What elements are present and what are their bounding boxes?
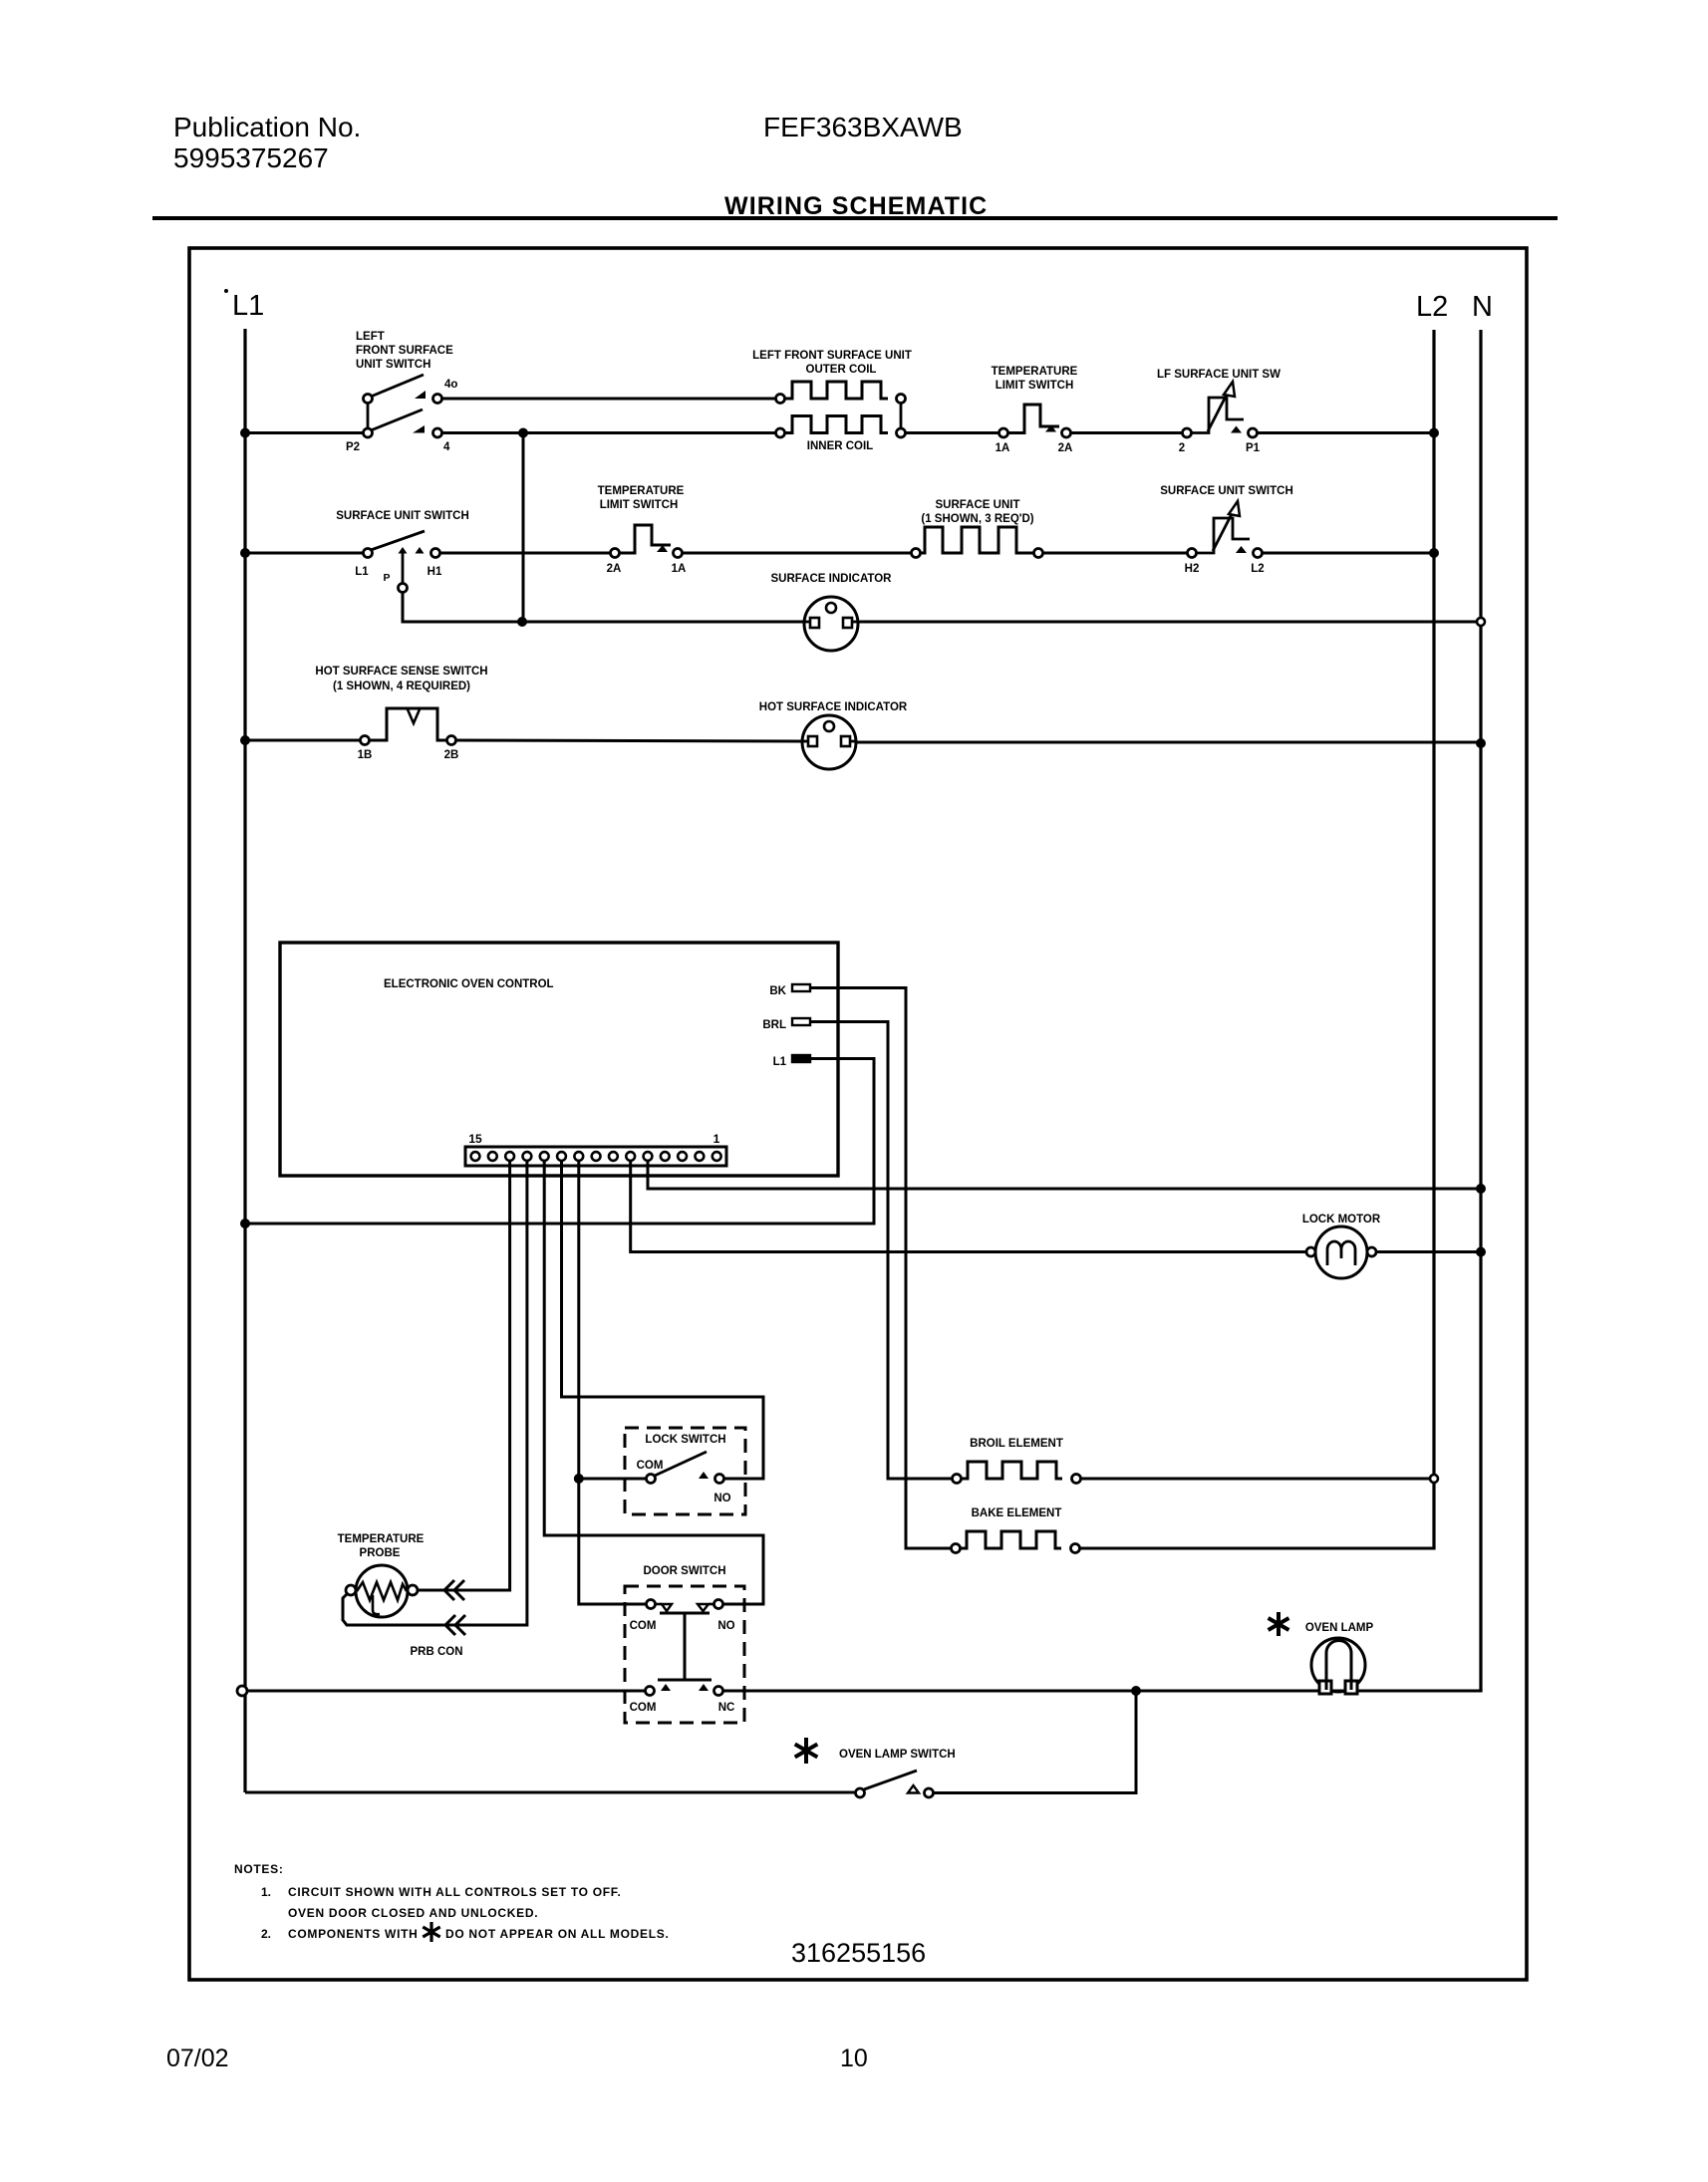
svg-text:SURFACE UNIT SWITCH: SURFACE UNIT SWITCH <box>1160 485 1293 497</box>
surface indicator lamp <box>804 597 858 651</box>
temperature limit switch (row 2) label <box>992 366 1078 392</box>
wire pin 12 to temperature probe (lower loop) <box>343 1160 527 1625</box>
wire pin 13 to temperature probe (upper) <box>418 1160 510 1590</box>
svg-text:LF SURFACE UNIT SW: LF SURFACE UNIT SW <box>1157 369 1281 381</box>
door switch lower pole COM NC <box>630 1684 735 1714</box>
wire linking outer and inner coil right ends <box>900 403 903 428</box>
wire L1 bus to hot surface sense switch <box>240 735 360 745</box>
svg-text:H2: H2 <box>1185 563 1200 575</box>
wire N bus (right vertical) <box>1479 330 1482 1691</box>
svg-text:PRB CON: PRB CON <box>410 1646 462 1658</box>
svg-text:2B: 2B <box>444 749 459 761</box>
svg-text:L1: L1 <box>773 1056 787 1068</box>
surface unit coil <box>912 527 1043 558</box>
svg-text:COM: COM <box>637 1460 664 1472</box>
svg-text:P2: P2 <box>346 441 360 453</box>
svg-text:LEFT: LEFT <box>356 331 385 343</box>
junction node at (525,434) <box>518 428 528 438</box>
oven lamp <box>1311 1638 1365 1694</box>
svg-text:NC: NC <box>718 1702 735 1714</box>
svg-text:TEMPERATURE: TEMPERATURE <box>338 1533 425 1545</box>
surface unit switch (left, with P tap) <box>355 531 442 593</box>
svg-text:1B: 1B <box>358 749 373 761</box>
temperature limit switch (row 3) contacts 2A 1A <box>607 525 687 575</box>
wire lock motor to N bus <box>1376 1247 1486 1257</box>
BK output pin <box>769 984 810 997</box>
surface unit switch (right, thermal) <box>1185 501 1265 575</box>
probe lower connector chevrons <box>445 1615 455 1635</box>
electronic oven control box <box>280 943 838 1176</box>
wire hot surface indicator to N bus <box>856 738 1486 748</box>
svg-text:INNER COIL: INNER COIL <box>807 440 873 452</box>
surface unit label <box>921 499 1033 525</box>
wire surface indicator to N bus <box>858 618 1485 626</box>
svg-text:2: 2 <box>1179 442 1185 454</box>
svg-text:SURFACE UNIT SWITCH: SURFACE UNIT SWITCH <box>336 510 469 522</box>
left front surface unit switch (double pole) <box>346 375 457 453</box>
inner coil (left front surface unit) <box>776 416 906 438</box>
svg-text:LIMIT SWITCH: LIMIT SWITCH <box>996 380 1074 392</box>
wire L2 bus (right vertical) <box>1432 330 1435 1548</box>
LF surface unit sw (thermal switch) <box>1179 382 1261 454</box>
wire row2: switch 4 to junction <box>441 431 776 434</box>
lock switch contacts COM NO <box>637 1452 731 1504</box>
svg-text:DOOR SWITCH: DOOR SWITCH <box>643 1565 725 1577</box>
svg-text:07/02: 07/02 <box>166 2045 229 2072</box>
svg-text:OVEN LAMP SWITCH: OVEN LAMP SWITCH <box>839 1749 956 1761</box>
junction node at (524,624) <box>517 617 527 627</box>
svg-text:SURFACE INDICATOR: SURFACE INDICATOR <box>771 573 893 585</box>
probe upper connector chevrons <box>444 1580 454 1600</box>
wire pin 9 to lock switch COM and door switch COM <box>574 1160 646 1604</box>
wire surface unit to surface unit switch <box>1043 552 1188 555</box>
svg-text:316255156: 316255156 <box>791 1938 926 1968</box>
wire H1 to temperature limit switch row3 <box>440 552 610 555</box>
outer coil (left front surface unit) <box>776 382 906 404</box>
svg-text:(1 SHOWN, 4 REQUIRED): (1 SHOWN, 4 REQUIRED) <box>333 681 470 692</box>
svg-text:LOCK SWITCH: LOCK SWITCH <box>645 1434 725 1446</box>
svg-text:L2: L2 <box>1416 291 1448 323</box>
svg-text:ELECTRONIC OVEN CONTROL: ELECTRONIC OVEN CONTROL <box>384 978 554 990</box>
wire L1 bus to surface unit switch <box>240 548 363 558</box>
svg-text:2A: 2A <box>607 563 622 575</box>
svg-text:L2: L2 <box>1251 563 1264 575</box>
svg-text:L1: L1 <box>355 566 369 578</box>
svg-text:DO NOT APPEAR ON ALL MODELS.: DO NOT APPEAR ON ALL MODELS. <box>445 1927 670 1941</box>
svg-text:NO: NO <box>713 1493 730 1504</box>
svg-text:COMPONENTS WITH: COMPONENTS WITH <box>288 1927 419 1941</box>
svg-text:UNIT SWITCH: UNIT SWITCH <box>356 359 430 371</box>
left front surface unit coil labels <box>752 350 912 452</box>
door switch dashed box <box>625 1586 744 1723</box>
wire door switch NC to oven lamp and N bus corner <box>723 1690 1483 1693</box>
svg-text:10: 10 <box>840 2045 868 2072</box>
svg-text:PROBE: PROBE <box>360 1547 401 1559</box>
wire bake element to L2 bus <box>1080 1547 1436 1550</box>
wire oven lamp switch to junction (1140,1697) <box>934 1695 1136 1793</box>
oven lamp asterisk <box>1277 1612 1281 1636</box>
svg-text:P1: P1 <box>1246 442 1261 454</box>
temperature limit switch (row 2) contacts 1A 2A <box>996 405 1073 454</box>
svg-text:1A: 1A <box>996 442 1010 454</box>
node L1 label <box>224 289 264 322</box>
hot surface sense switch label <box>315 666 487 692</box>
wire pin 10 to lock switch NO <box>562 1160 764 1479</box>
wire pin 11 to door switch NO <box>544 1160 763 1604</box>
svg-text:1A: 1A <box>672 563 687 575</box>
wire BK pin to bake element (down right side) <box>810 988 952 1549</box>
svg-text:NOTES:: NOTES: <box>234 1862 284 1876</box>
left front surface unit switch label <box>356 331 453 371</box>
svg-text:COM: COM <box>630 1620 657 1632</box>
svg-text:WIRING SCHEMATIC: WIRING SCHEMATIC <box>724 192 988 220</box>
wire junction to surface indicator <box>526 621 805 624</box>
L1 output pin <box>773 1055 810 1068</box>
svg-text:P: P <box>383 572 390 584</box>
temperature limit switch (row 3) label <box>598 485 685 511</box>
svg-text:4: 4 <box>443 441 450 453</box>
svg-text:BROIL ELEMENT: BROIL ELEMENT <box>970 1438 1063 1450</box>
svg-text:H1: H1 <box>427 566 442 578</box>
temperature probe <box>346 1565 418 1617</box>
svg-text:LOCK MOTOR: LOCK MOTOR <box>1302 1214 1381 1226</box>
svg-text:2.: 2. <box>261 1927 271 1941</box>
oven lamp switch <box>856 1771 934 1797</box>
svg-text:(1 SHOWN, 3 REQ'D): (1 SHOWN, 3 REQ'D) <box>921 513 1033 525</box>
lock switch dashed box <box>625 1428 745 1514</box>
wire temp limit switch to surface unit coil <box>683 552 911 555</box>
junction node at (1140,1697) <box>1131 1686 1141 1696</box>
svg-text:Publication No.: Publication No. <box>173 112 361 142</box>
svg-text:NO: NO <box>717 1620 734 1632</box>
svg-text:TEMPERATURE: TEMPERATURE <box>598 485 685 497</box>
wire L1 pin to L1 bus <box>240 1059 874 1229</box>
svg-text:OUTER COIL: OUTER COIL <box>806 364 877 376</box>
wire row1: switch 4o to outer coil <box>441 398 776 401</box>
wire P contact down to indicator row <box>403 592 518 622</box>
svg-text:LIMIT SWITCH: LIMIT SWITCH <box>600 499 679 511</box>
wire LF surface unit sw to L2 bus <box>1258 428 1439 438</box>
svg-text:1.: 1. <box>261 1885 271 1899</box>
wire surface unit switch to L2 bus <box>1263 548 1439 558</box>
lock motor <box>1306 1227 1376 1278</box>
notes block <box>234 1862 670 1941</box>
svg-text:N: N <box>1472 291 1493 323</box>
BRL output pin <box>762 1018 810 1031</box>
schematic border frame <box>189 248 1527 1980</box>
wire inner coil to temperature limit switch <box>905 431 998 434</box>
temperature probe label <box>338 1533 425 1559</box>
header: publication number <box>173 112 361 173</box>
note asterisk <box>429 1922 432 1942</box>
wire L1 bus to P2 <box>240 428 363 438</box>
svg-text:OVEN LAMP: OVEN LAMP <box>1305 1622 1374 1634</box>
svg-text:FEF363BXAWB: FEF363BXAWB <box>763 112 963 142</box>
svg-text:HOT SURFACE INDICATOR: HOT SURFACE INDICATOR <box>759 701 908 713</box>
wire L1 bus (left vertical) <box>243 329 246 1792</box>
oven lamp switch asterisk <box>804 1738 808 1764</box>
wire BRL pin to broil element (down right side) <box>810 1022 953 1480</box>
svg-text:TEMPERATURE: TEMPERATURE <box>992 366 1078 378</box>
wire pin 5 to N bus <box>648 1160 1486 1194</box>
svg-text:1: 1 <box>713 1132 720 1146</box>
door switch upper pole COM NO <box>630 1600 735 1633</box>
wire junction 525 down to indicator row <box>522 433 525 623</box>
svg-text:COM: COM <box>630 1702 657 1714</box>
hot surface sense switch contacts 1B 2B <box>358 708 459 761</box>
svg-text:4o: 4o <box>444 379 457 391</box>
header rule <box>152 216 1558 220</box>
terminal strip (15 pins) <box>465 1132 726 1166</box>
svg-text:OVEN DOOR CLOSED AND UNLOCKED.: OVEN DOOR CLOSED AND UNLOCKED. <box>288 1906 538 1920</box>
hot surface indicator lamp <box>802 715 856 769</box>
door switch actuator <box>658 1613 712 1680</box>
svg-text:5995375267: 5995375267 <box>173 142 329 173</box>
svg-text:BK: BK <box>769 985 786 997</box>
svg-text:2A: 2A <box>1058 442 1073 454</box>
wire temp limit switch to LF surface unit sw <box>1071 431 1183 434</box>
svg-text:CIRCUIT SHOWN WITH ALL CONTROL: CIRCUIT SHOWN WITH ALL CONTROLS SET TO O… <box>288 1885 622 1899</box>
svg-text:HOT SURFACE SENSE SWITCH: HOT SURFACE SENSE SWITCH <box>315 666 487 678</box>
wire sense switch to hot surface indicator <box>456 740 803 741</box>
svg-text:15: 15 <box>468 1132 482 1146</box>
svg-text:BRL: BRL <box>762 1019 786 1031</box>
wire L1 bus to door switch lower COM <box>237 1686 645 1696</box>
wire broil element to L2 bus <box>1081 1475 1438 1483</box>
svg-text:SURFACE UNIT: SURFACE UNIT <box>936 499 1020 511</box>
svg-text:BAKE ELEMENT: BAKE ELEMENT <box>972 1507 1062 1519</box>
broil element <box>953 1462 1081 1484</box>
bake element <box>952 1531 1080 1553</box>
wire L1 bus corner to oven lamp switch <box>245 1791 855 1794</box>
svg-text:LEFT FRONT SURFACE UNIT: LEFT FRONT SURFACE UNIT <box>752 350 912 362</box>
svg-text:L1: L1 <box>232 290 264 322</box>
svg-text:FRONT SURFACE: FRONT SURFACE <box>356 345 453 357</box>
wire pin 6 to lock motor <box>631 1160 1306 1252</box>
